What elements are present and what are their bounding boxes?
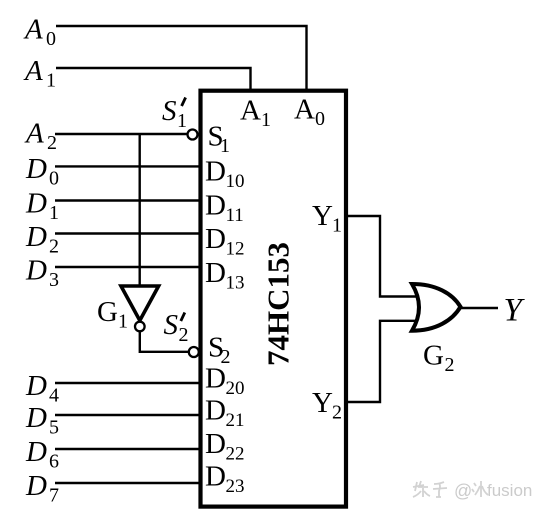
pin label D11 <box>205 190 244 227</box>
wire OR gate output to Y <box>461 307 499 309</box>
svg-text:Y: Y <box>312 200 333 232</box>
svg-text:0: 0 <box>315 108 325 130</box>
watermark 知乎 @冰fusion <box>413 481 447 497</box>
inverter G1 output bubble <box>135 322 145 332</box>
svg-text:22: 22 <box>226 444 245 465</box>
svg-text:4: 4 <box>49 385 59 407</box>
chip U1 74HC153 body <box>201 91 347 507</box>
svg-text:7: 7 <box>49 485 59 507</box>
svg-text:G: G <box>97 296 118 328</box>
wire D7 <box>55 482 201 484</box>
wire D3 <box>55 266 201 268</box>
svg-text:A: A <box>240 95 261 127</box>
svg-text:A: A <box>294 94 315 126</box>
pin label D22 <box>205 428 245 465</box>
wire A0 (top horizontal + drop to pin A0) <box>56 26 307 90</box>
svg-text:G: G <box>423 340 444 372</box>
svg-text:fusion: fusion <box>487 481 532 500</box>
wire D5 <box>55 414 201 416</box>
svg-text:@: @ <box>454 481 472 501</box>
label S2' <box>164 309 189 346</box>
svg-text:A: A <box>23 55 43 87</box>
svg-text:Y: Y <box>312 387 333 419</box>
svg-text:D: D <box>205 257 226 289</box>
label G1 <box>97 296 128 333</box>
or-gate G2 <box>412 284 461 331</box>
svg-text:D: D <box>25 255 47 287</box>
wire D6 <box>55 448 201 450</box>
pin label S2 (inside chip) <box>208 332 231 369</box>
svg-text:1: 1 <box>46 70 56 92</box>
svg-text:23: 23 <box>226 476 245 497</box>
wire D1 <box>55 199 201 201</box>
svg-text:2: 2 <box>49 236 59 258</box>
svg-text:S: S <box>164 309 179 341</box>
pin label D10 <box>205 156 245 193</box>
svg-text:1: 1 <box>332 215 342 237</box>
svg-text:1: 1 <box>220 135 230 157</box>
svg-text:D: D <box>25 153 47 185</box>
pin label Y2 (inside chip) <box>312 387 342 424</box>
label D7 (input) <box>25 470 59 507</box>
label G2 <box>423 340 455 377</box>
svg-text:D: D <box>205 428 226 460</box>
svg-text:2: 2 <box>332 402 342 424</box>
wire Y1 to OR gate upper input <box>346 216 421 297</box>
label D1 (input) <box>25 188 59 225</box>
svg-text:D: D <box>205 190 226 222</box>
svg-text:A: A <box>23 14 43 46</box>
svg-text:5: 5 <box>49 417 59 439</box>
wire from G1 bubble to S2 pin <box>140 332 189 352</box>
svg-text:13: 13 <box>226 273 245 294</box>
pin label A0 (inside chip) <box>294 94 325 131</box>
svg-text:2: 2 <box>179 324 189 346</box>
wire D0 <box>55 165 201 167</box>
label D4 (input) <box>25 370 59 407</box>
svg-text:1: 1 <box>261 109 271 131</box>
svg-text:1: 1 <box>118 311 128 333</box>
svg-text:21: 21 <box>226 410 245 431</box>
pin label D12 <box>205 223 245 260</box>
svg-text:S: S <box>162 95 177 127</box>
label D0 (input) <box>25 153 59 190</box>
svg-text:2: 2 <box>445 354 455 376</box>
svg-text:11: 11 <box>226 205 244 226</box>
pin label D13 <box>205 257 245 294</box>
wire D2 <box>55 232 201 234</box>
pin label D21 <box>205 395 245 432</box>
label D3 (input) <box>25 255 59 292</box>
svg-text:D: D <box>25 470 47 502</box>
label D2 (input) <box>25 221 59 258</box>
svg-text:D: D <box>25 188 47 220</box>
label D6 (input) <box>25 436 59 473</box>
svg-text:D: D <box>25 221 47 253</box>
label A2 (input) <box>24 118 57 155</box>
label D5 (input) <box>25 402 59 439</box>
svg-text:0: 0 <box>46 28 56 50</box>
pin label Y1 (inside chip) <box>312 200 342 237</box>
svg-text:6: 6 <box>49 451 59 473</box>
node S1' (open circle at S1 pin) <box>188 130 198 140</box>
svg-text:20: 20 <box>226 378 245 399</box>
pin label A1 (inside chip) <box>240 95 271 132</box>
inverter G1 (triangle) <box>121 286 159 321</box>
node S2' (open circle at S2 pin) <box>189 347 199 357</box>
label A0 (input) <box>23 14 56 51</box>
svg-text:D: D <box>205 223 226 255</box>
svg-text:D: D <box>25 402 47 434</box>
svg-text:1: 1 <box>177 110 187 132</box>
svg-text:12: 12 <box>226 239 245 260</box>
svg-text:A: A <box>24 118 44 150</box>
svg-text:10: 10 <box>226 171 245 192</box>
svg-text:3: 3 <box>49 269 59 291</box>
svg-text:D: D <box>205 461 226 493</box>
svg-text:1: 1 <box>49 202 59 224</box>
wire A1 (horizontal + drop to pin A1) <box>56 68 251 90</box>
svg-text:74HC153: 74HC153 <box>261 242 296 366</box>
wire A2 to S1 pin <box>55 133 188 135</box>
svg-text:D: D <box>205 156 226 188</box>
wire D4 <box>55 382 201 384</box>
wire from node S1' down to inverter G1 input <box>138 134 140 285</box>
label A1 (input) <box>23 55 56 92</box>
wire Y2 to OR gate lower input <box>346 321 421 402</box>
pin label D20 <box>205 363 245 400</box>
label S1' <box>162 95 187 132</box>
svg-text:D: D <box>205 363 226 395</box>
svg-text:0: 0 <box>49 168 59 190</box>
pin label D23 <box>205 461 245 498</box>
svg-text:D: D <box>25 436 47 468</box>
svg-text:D: D <box>25 370 47 402</box>
pin label S1 (inside chip) <box>208 121 231 158</box>
svg-text:D: D <box>205 395 226 427</box>
svg-text:2: 2 <box>47 132 57 154</box>
